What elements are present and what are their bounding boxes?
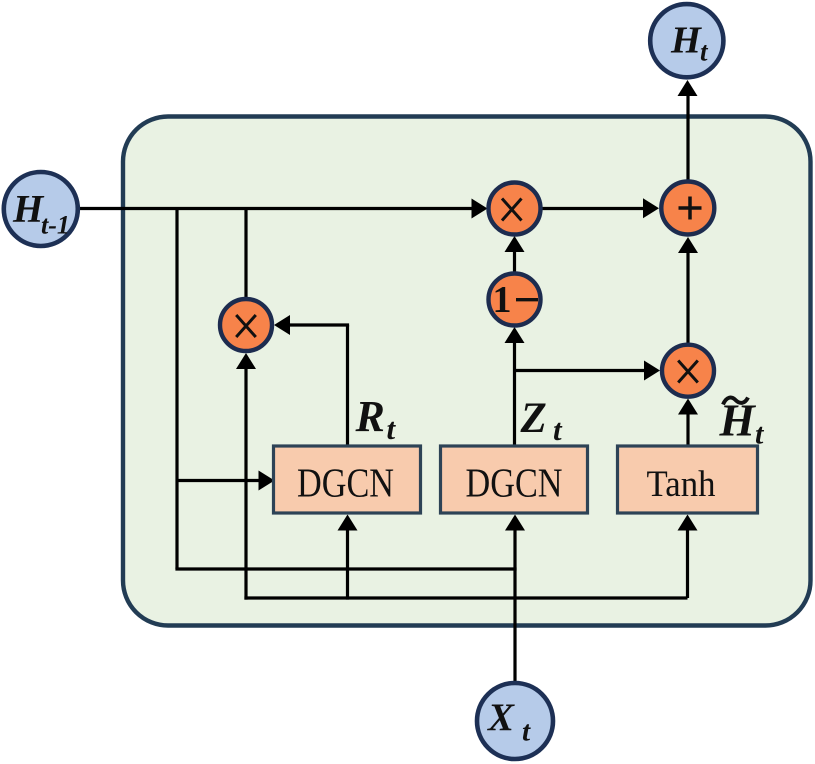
multiplier C circle [662, 345, 714, 397]
wire multiplier C top to plus bottom [686, 252, 689, 343]
node H(t) [650, 4, 723, 77]
wire bottom horizontal y=598 [244, 596, 687, 599]
wire H(t-1) drop at x=246 into multiplier B top [244, 209, 247, 300]
wire Z(t) vertical from DGCN2 top into (1-) bottom [513, 342, 516, 446]
wire H(t-1) drop at x=177 [175, 209, 178, 570]
wire up into DGCN1 bottom [346, 528, 349, 600]
node H(t-1) [4, 172, 78, 246]
GRU cell body [123, 117, 811, 626]
box DGCN R [274, 446, 421, 513]
wire up into Tanh bottom [686, 528, 689, 598]
wire bottom horizontal y=569 [175, 567, 516, 570]
wire from y=598 up into multiplier B bottom [244, 368, 247, 600]
box Tanh [618, 446, 758, 513]
wire Z branch to multiplier C left [515, 369, 647, 372]
svg-text:H: H [670, 20, 702, 62]
wire (1-) top to multiplier A bottom [513, 251, 516, 273]
box DGCN Z [441, 446, 588, 513]
adder plus circle [661, 182, 714, 235]
svg-text:DGCN: DGCN [297, 460, 394, 506]
svg-text:Tanh: Tanh [647, 463, 716, 504]
node X(t) [477, 683, 553, 759]
multiplier A circle [489, 183, 541, 235]
one-minus circle [489, 274, 541, 326]
wire R(t) path from DGCN1 top to multiplier B right [346, 325, 349, 446]
svg-text:DGCN: DGCN [466, 460, 563, 506]
svg-text:t: t [387, 411, 397, 446]
wire X(t) vertical up into DGCN2 bottom [513, 528, 516, 682]
wire multiplier A to plus [542, 207, 646, 210]
wire into DGCN1 left [177, 479, 260, 482]
wire plus top to H(t) [686, 96, 689, 180]
svg-text:t-1: t-1 [41, 211, 70, 240]
svg-text:t: t [553, 412, 563, 447]
svg-text:X: X [487, 696, 515, 739]
wire Tanh top into multiplier C bottom [686, 414, 689, 446]
svg-text:R: R [355, 392, 385, 441]
svg-text:Z: Z [520, 395, 547, 442]
wire H(t-1) horizontal [78, 207, 473, 210]
multiplier B circle [220, 299, 272, 351]
svg-text:t: t [522, 716, 531, 748]
svg-text:1: 1 [493, 279, 512, 321]
